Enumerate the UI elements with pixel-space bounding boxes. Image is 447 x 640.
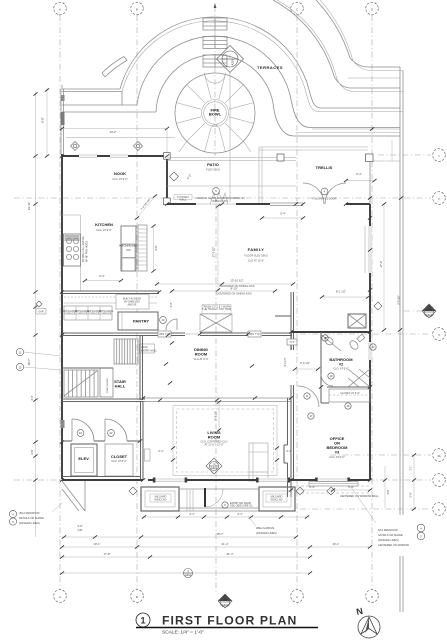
- OFFICE label: [327, 436, 349, 459]
- family east wall window breaks: [365, 226, 372, 273]
- svg-text:PATIO: PATIO: [207, 162, 219, 167]
- svg-text:2'-1": 2'-1": [410, 465, 413, 470]
- right dim 17-4: [379, 140, 401, 332]
- svg-text:CLG AT 10'-6": CLG AT 10'-6": [248, 259, 264, 263]
- svg-text:(5/12 REDWOOD: (5/12 REDWOOD: [19, 511, 40, 515]
- svg-text:B: B: [136, 595, 138, 599]
- hall dim 3-0: [293, 361, 320, 371]
- svg-text:CLOSET: CLOSET: [111, 454, 128, 459]
- north arrow: [355, 606, 380, 638]
- entry steps diagonal ramp: [62, 481, 85, 511]
- svg-text:14'-2": 14'-2": [109, 130, 116, 134]
- svg-text:6'-6": 6'-6": [155, 245, 158, 250]
- entry stair treads: [114, 339, 138, 364]
- svg-text:ROOM: ROOM: [208, 435, 221, 440]
- svg-text:+7'-6": +7'-6": [212, 124, 219, 128]
- PATIO label: [206, 162, 220, 172]
- nook top wall: [62, 154, 167, 158]
- svg-text:ROOM: ROOM: [195, 352, 208, 357]
- svg-text:#3: #3: [335, 450, 340, 455]
- living east cabinet: [249, 443, 268, 481]
- elevator: [71, 444, 97, 476]
- small diamond south wall: [296, 487, 304, 495]
- bottom dim row 1: [62, 524, 298, 539]
- kitchen counter edge: [62, 215, 81, 291]
- grid line C: [291, 2, 304, 602]
- svg-text:GARAGE: GARAGE: [100, 312, 111, 316]
- cutaway wall note: [174, 195, 192, 202]
- stair hall label: [114, 379, 126, 389]
- svg-text:5'-4": 5'-4": [309, 485, 315, 489]
- svg-text:16'-0 1/2": 16'-0 1/2": [216, 411, 218, 421]
- svg-text:KITCHEN SINK: KITCHEN SINK: [119, 244, 138, 248]
- bathroom sink: [322, 335, 342, 351]
- hall west wall (dining side): [291, 292, 294, 480]
- svg-text:AT 11'-0" / 12'-0": AT 11'-0" / 12'-0": [205, 442, 224, 446]
- trellis 5'-4 dim: [344, 172, 377, 182]
- trellis double door: [303, 183, 346, 204]
- left stair tags: [16, 348, 62, 370]
- left terrace wall upper: [61, 89, 65, 154]
- terrace right outer wall: [400, 67, 403, 612]
- FAMILY label: [244, 247, 268, 263]
- small semicircle landing above fire bowl: [205, 73, 226, 84]
- grid line 4: [14, 474, 445, 487]
- svg-text:A301: A301: [185, 573, 192, 577]
- svg-text:TRELLIS: TRELLIS: [316, 165, 333, 170]
- NOOK label: [112, 171, 128, 181]
- grid line 1: [378, 149, 445, 162]
- svg-text:DETAILS OR SHADE: DETAILS OR SHADE: [19, 516, 44, 520]
- svg-text:23'-11": 23'-11": [27, 202, 31, 210]
- trellis top edge: [259, 147, 400, 161]
- pantry door circle 20: [160, 317, 167, 324]
- bathroom north wall: [291, 331, 370, 333]
- dining axis centerline: [215, 204, 217, 593]
- svg-text:#2: #2: [339, 362, 344, 367]
- elev closet top wall and doors: [62, 419, 140, 441]
- svg-text:WELLS ABOVE: WELLS ABOVE: [256, 526, 275, 530]
- nook diamond marker: [170, 172, 193, 181]
- svg-text:KITCHEN: KITCHEN: [95, 222, 113, 227]
- svg-text:18'-7": 18'-7": [216, 532, 223, 536]
- grid line A: [54, 2, 67, 602]
- nook east wall: [166, 153, 168, 204]
- svg-text:(DASHED LINES): (DASHED LINES): [378, 538, 399, 542]
- terrace left handrail stub (cut ends of outer arcs): [102, 57, 127, 78]
- svg-text:A307: A307: [231, 59, 235, 66]
- terrace steps upper flight: [203, 18, 227, 30]
- svg-text:5'-4": 5'-4": [280, 212, 286, 216]
- svg-text:SCALE: 1/4" = 1'-0": SCALE: 1/4" = 1'-0": [162, 630, 204, 636]
- svg-text:THE TRASH / TOP TRIM: THE TRASH / TOP TRIM: [202, 307, 231, 311]
- svg-text:ABOVE: ABOVE: [128, 303, 137, 307]
- right redwood note: [378, 524, 425, 547]
- section marker A307: [217, 46, 244, 203]
- svg-text:SDL OBSCURE GL: SDL OBSCURE GL: [230, 504, 253, 508]
- svg-text:A301: A301: [222, 603, 229, 607]
- svg-text:PANTRY: PANTRY: [133, 319, 149, 324]
- section marker A302: [404, 304, 436, 318]
- svg-text:10'-1": 10'-1": [93, 542, 100, 546]
- wells above note: [248, 516, 277, 535]
- bathroom west wall: [320, 332, 322, 387]
- svg-text:CENTERED ON WINDOW WALL: CENTERED ON WINDOW WALL: [340, 494, 379, 498]
- top diamond markers: [71, 142, 143, 151]
- kitchen bar counter: [138, 225, 147, 271]
- svg-text:5'-4": 5'-4": [348, 485, 354, 489]
- living dining mid dims: [216, 400, 222, 431]
- svg-text:5/12 REDWOOD: 5/12 REDWOOD: [378, 528, 398, 532]
- svg-text:21'-4": 21'-4": [221, 542, 228, 546]
- svg-text:3'-1": 3'-1": [158, 449, 164, 453]
- svg-text:C/R: C/R: [78, 528, 83, 532]
- porch left planter: [141, 487, 179, 511]
- svg-text:C: C: [296, 7, 298, 11]
- svg-text:COAT CLOSET: COAT CLOSET: [106, 377, 109, 393]
- hall south wall below pantry: [62, 333, 291, 336]
- pantry: [118, 312, 158, 330]
- svg-text:CLG: AT 9'-0": CLG: AT 9'-0": [329, 455, 345, 459]
- left appliance tags: [36, 301, 46, 314]
- grid line D: [366, 2, 379, 602]
- left exterior wall: [61, 154, 63, 479]
- svg-text:FIRST FLOOR PLAN: FIRST FLOOR PLAN: [162, 614, 297, 628]
- terrace outer arc (double retaining wall): [120, 17, 403, 111]
- bottom dim row 4: [60, 569, 312, 578]
- svg-text:A: A: [59, 595, 61, 599]
- svg-text:NOOK: NOOK: [114, 171, 126, 176]
- bathroom shower corner: [348, 369, 370, 387]
- grid line 2: [14, 192, 445, 205]
- living ceiling medallion: [206, 458, 222, 474]
- svg-text:ELEV.: ELEV.: [78, 456, 89, 461]
- svg-text:3'-0 1/2": 3'-0 1/2": [300, 361, 310, 365]
- kitchen diagonal dim: [135, 194, 157, 219]
- family 5'-4 dim: [260, 212, 305, 220]
- terrace right lower edge with tick: [296, 78, 400, 133]
- terrace large outer arc right (double): [316, 0, 403, 71]
- terrace inner circle r40: [175, 73, 255, 153]
- top dim 14-2: [60, 127, 169, 152]
- east exterior wall: [369, 161, 371, 204]
- grid2 wall ticks: [220, 196, 403, 205]
- svg-text:A301: A301: [211, 466, 218, 470]
- title bar: [136, 613, 318, 636]
- svg-text:17'-8": 17'-8": [103, 552, 110, 556]
- svg-text:FLEV 266.5: FLEV 266.5: [206, 168, 220, 172]
- svg-text:HALL: HALL: [115, 384, 126, 389]
- svg-text:CLG: AT 9'-0": CLG: AT 9'-0": [96, 228, 112, 232]
- svg-text:WALL: WALL: [180, 197, 188, 201]
- terrace arc 2: [137, 36, 400, 127]
- svg-text:8'-1 1/2": 8'-1 1/2": [336, 290, 346, 294]
- grid line 5: [300, 503, 445, 516]
- left dimension column upper: [41, 88, 50, 158]
- family south wall segment: [275, 315, 291, 317]
- living coffered ceiling dashed: [173, 406, 277, 476]
- svg-text:18'-7": 18'-7": [27, 359, 31, 366]
- closet-living wall: [62, 476, 140, 478]
- svg-text:17'-4": 17'-4": [379, 261, 383, 268]
- svg-text:CLOSET AT 9'-0": CLOSET AT 9'-0": [340, 391, 360, 395]
- kitchen range: [64, 234, 89, 266]
- KITCHEN label: [95, 222, 113, 232]
- svg-text:FLOOR ELEV 266.5: FLOOR ELEV 266.5: [244, 254, 268, 258]
- appliance garage cabinets: [63, 306, 114, 320]
- skylight hatch box: [348, 314, 366, 328]
- BATHROOM label: [329, 357, 353, 371]
- bathroom east window: [368, 342, 372, 360]
- svg-text:A: A: [59, 7, 61, 11]
- left redwood note: [9, 503, 62, 525]
- svg-text:ENTRY HALL: ENTRY HALL: [141, 349, 157, 353]
- porch center steps: [179, 489, 259, 511]
- svg-text:(DASHED LINES): (DASHED LINES): [19, 521, 40, 525]
- svg-text:4'-6": 4'-6": [386, 489, 390, 494]
- hall closet: [105, 444, 133, 476]
- office shade dashes: [296, 486, 370, 493]
- family east wall ticks: [368, 216, 372, 291]
- kitchen desk unit: [116, 295, 149, 310]
- porch side diamonds: [129, 487, 137, 495]
- svg-text:41'-4": 41'-4": [226, 552, 233, 556]
- living west wall: [141, 402, 151, 480]
- svg-text:CLG: AT 9'-0": CLG: AT 9'-0": [112, 177, 128, 181]
- office window center dim: [289, 485, 372, 492]
- left wall hatch lower: [61, 420, 65, 428]
- terrace radial spokes: [176, 74, 253, 152]
- DINING ROOM label: [194, 347, 209, 361]
- svg-text:17'-0 1/2": 17'-0 1/2": [213, 247, 216, 258]
- svg-text:16'-1": 16'-1": [332, 542, 339, 546]
- svg-text:A302: A302: [426, 313, 433, 317]
- family axis dim: [213, 204, 221, 291]
- svg-text:CLG: AT 9'-0": CLG: AT 9'-0": [333, 367, 349, 371]
- south wall window jambs: [153, 478, 350, 483]
- bottom dim row 3: [60, 552, 312, 559]
- office bottom dim 16-1: [310, 466, 390, 549]
- svg-text:FOLDING GL DOOR: FOLDING GL DOOR: [312, 197, 336, 201]
- svg-text:4'-4": 4'-4": [30, 395, 34, 400]
- svg-text:W/ 48" PRO-HOOD: W/ 48" PRO-HOOD: [86, 241, 89, 262]
- nook corner posts: [164, 153, 171, 205]
- svg-text:2'-5": 2'-5": [410, 492, 413, 497]
- svg-text:(DASHED LINES): (DASHED LINES): [256, 531, 277, 535]
- dining upper dim rows: [155, 279, 295, 296]
- svg-text:13'-10 1/2": 13'-10 1/2": [230, 279, 243, 283]
- svg-text:TYP: TYP: [289, 340, 294, 344]
- grid line 3: [300, 328, 445, 341]
- terrace steps lower flight: [203, 55, 227, 67]
- island 6-6 dim: [151, 224, 158, 272]
- porch right planter: [259, 487, 295, 511]
- small diamond right wall: [374, 302, 382, 310]
- LIVING ROOM label: [200, 430, 227, 446]
- svg-text:B: B: [136, 7, 138, 11]
- office closet band: [321, 387, 370, 403]
- kitchen island: [119, 226, 138, 271]
- svg-text:FAMILY: FAMILY: [248, 247, 265, 252]
- terrace left retaining walls: [62, 85, 156, 112]
- terrace middle outer arc right (double): [273, 0, 403, 92]
- terrace arc 3: [156, 55, 400, 136]
- porch bottom dim: [141, 512, 309, 519]
- south exterior wall: [62, 478, 370, 482]
- stair hall walls: [62, 335, 145, 402]
- svg-text:3A: 3A: [437, 454, 440, 458]
- svg-text:CLG: AT 8'-0": CLG: AT 8'-0": [111, 459, 127, 463]
- office window sill: [309, 482, 358, 487]
- folding door note circle 5: [195, 188, 244, 203]
- terrace steps middle flight: [203, 37, 227, 49]
- pantry door arc: [166, 319, 177, 330]
- family 8-1 dim: [320, 290, 370, 299]
- svg-text:WIN TYP: WIN TYP: [249, 332, 260, 336]
- dining buffet X: [200, 314, 232, 332]
- svg-text:GAR: GAR: [38, 310, 44, 314]
- hall rotated dims: [170, 302, 287, 366]
- office door arc: [298, 386, 319, 407]
- kitchen lower dim: [83, 274, 123, 282]
- svg-text:DINING AXIS: DINING AXIS: [212, 199, 228, 203]
- svg-text:4'-1": 4'-1": [189, 512, 195, 516]
- svg-text:D: D: [371, 595, 373, 599]
- bottom dim row 2: [60, 542, 312, 549]
- entry door leaf: [205, 488, 253, 508]
- wall type tags: [158, 331, 297, 345]
- svg-text:TERRACES: TERRACES: [257, 65, 283, 70]
- living east wall with niche: [284, 398, 291, 497]
- svg-text:WD/CLAD: WD/CLAD: [271, 497, 283, 501]
- grid line B: [131, 2, 144, 602]
- circle 10 marker: [370, 344, 376, 350]
- svg-text:C: C: [296, 595, 298, 599]
- dining scattered ticks: [158, 332, 257, 401]
- bathroom marker circles: [304, 335, 351, 409]
- grid line 3A: [330, 449, 445, 462]
- kitchen south wall: [62, 291, 159, 303]
- svg-text:3'-0 1/2": 3'-0 1/2": [397, 295, 401, 305]
- svg-text:8'-10": 8'-10": [230, 287, 237, 291]
- section marker A301 bottom: [218, 594, 232, 608]
- svg-text:CLG AT 9'-0": CLG AT 9'-0": [194, 357, 209, 361]
- trellis posts: [277, 154, 373, 162]
- svg-text:5'-4": 5'-4": [356, 172, 362, 176]
- svg-text:CENTERED ON WINDOW: CENTERED ON WINDOW: [378, 543, 410, 547]
- left dimension column: [27, 92, 38, 537]
- svg-text:4'-6": 4'-6": [30, 449, 34, 454]
- right terrace bottom wall ticks: [60, 154, 402, 481]
- svg-text:DW: DW: [126, 248, 131, 252]
- coat closet: [100, 368, 113, 397]
- bathroom door arc: [321, 374, 333, 386]
- svg-text:3'-0": 3'-0": [170, 302, 173, 307]
- porch step jamb lines: [187, 490, 193, 511]
- svg-text:CENTERED ON DINING AXIS: CENTERED ON DINING AXIS: [216, 292, 251, 296]
- svg-text:WD/CLAD: WD/CLAD: [155, 497, 167, 501]
- svg-text:6'-8": 6'-8": [41, 117, 45, 122]
- bathroom toilet: [348, 334, 364, 351]
- svg-text:5'-4": 5'-4": [99, 274, 105, 278]
- terrace centerline: [214, 3, 217, 156]
- svg-text:5'-2 1/4": 5'-2 1/4": [284, 357, 287, 366]
- entry hall note: [140, 344, 158, 353]
- right column dim 3A-5: [410, 453, 417, 510]
- svg-text:4'-1": 4'-1": [237, 512, 243, 516]
- office window diamond: [327, 487, 379, 523]
- svg-text:1: 1: [140, 616, 145, 626]
- svg-text:D: D: [371, 7, 373, 11]
- svg-text:SATWLS OR SHADE: SATWLS OR SHADE: [378, 533, 403, 537]
- office door circle 17: [308, 413, 314, 419]
- patio floor lines: [167, 147, 296, 204]
- patio-family wall with folding glass door: [167, 192, 370, 206]
- fire bowl: [202, 100, 229, 128]
- basement stair with diagonal: [64, 370, 98, 397]
- trash recycling note box: [202, 305, 231, 314]
- living room north beam: [143, 398, 291, 402]
- svg-text:BOWL: BOWL: [209, 112, 222, 117]
